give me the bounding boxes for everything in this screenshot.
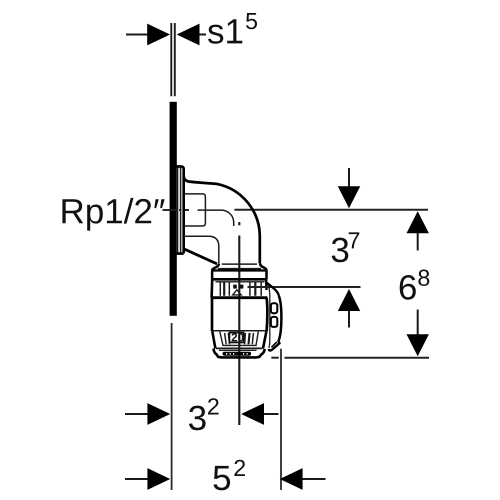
wall upper double line [171,23,175,96]
elbow inner lower contour [184,236,219,264]
dimension s1 arrow right [198,34,206,36]
bell flare left [212,264,219,271]
body band edges [212,298,267,332]
label 3 superscript 2 [189,406,206,431]
extension line C bottom right [271,357,429,359]
dimension 6-8 top arrow (up) [417,231,419,251]
label 3 superscript 7 [332,238,349,263]
flange bottom edge [176,252,183,255]
flange front face [182,168,185,253]
dimension 3-2 right arrow [263,413,279,415]
taper band top inner line [216,281,265,283]
marking squares on taper band [233,285,237,289]
label 5 superscript 2 [214,466,231,490]
pipe centerline vertical dash-dot [238,222,240,425]
wall thick bar [170,102,177,316]
marking triangle on taper band [233,290,242,295]
latch window 1 [271,303,277,313]
lower band inner trapezoid [220,332,258,346]
size label 20 box [229,333,243,343]
flange top edge [176,166,183,169]
fitting right extension line vertical [280,349,282,490]
latch hook inner notch [271,342,276,347]
latch top slant [266,283,278,296]
leader line B to collar markings [248,286,361,288]
label s1 superscript 5 [208,19,242,43]
bottom cap top line [216,347,262,349]
lower band ribs [225,333,254,344]
latch outer edge [269,295,282,350]
dimension 3-2 left arrow [125,413,149,415]
label Rp1/2" [62,198,164,231]
body band bottom line [213,330,266,332]
elbow bottom slanted edge [184,249,217,264]
bell flare right [260,263,266,270]
bell flare middle line [218,268,261,270]
collar band [211,271,267,280]
dimension s1 arrow left [126,34,149,36]
dimension 6-8 bottom arrow (down) [417,310,419,336]
latch window 2 [271,317,277,327]
bore inner line [198,210,234,226]
latch inner line [268,285,269,348]
centerline Rp1/2 horizontal dash-dot [163,209,190,211]
dimension 5-2 right arrow [301,478,326,480]
taper band edges [211,279,267,297]
flange plate inner lines [178,168,181,253]
wall lower extension line [171,323,173,490]
dimension 5-2 left arrow [125,478,149,480]
taper band ribs [220,282,261,296]
bottom cap inner line [219,349,257,351]
lower ribbed band edges [212,331,266,348]
elbow outer contour [184,177,260,264]
bottom cap dark bar [223,352,252,356]
bell mouth line [222,263,257,265]
extension line A right at pipe axis [234,209,428,211]
label 6 superscript 8 [400,275,416,300]
dimension 3-7 top arrow (down) [348,168,350,187]
dimension 3-7 bottom arrow (up) [348,310,350,328]
bottom cap [213,349,264,358]
socket hidden rectangle [184,194,205,226]
